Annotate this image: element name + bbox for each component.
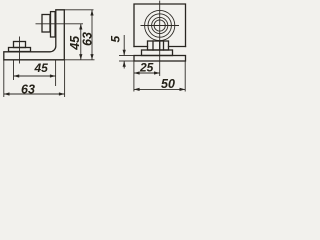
bolt 1 washer (9, 48, 31, 52)
extension line left (plate left edge extended down) (133, 61, 135, 92)
dimension line 45 vertical (80, 24, 82, 60)
bolt shank circle (152, 17, 168, 33)
plate top view (square, bottom edge interrupted by bolt head) (134, 4, 186, 47)
svg-text:45: 45 (34, 61, 49, 75)
bolt 1 centerline (19, 37, 21, 64)
bolt head (front view) (148, 41, 169, 50)
svg-text:5: 5 (108, 36, 122, 43)
dimension line 5 (vertical, arrows outside) (123, 35, 125, 56)
dimension line 63 bottom (4, 93, 65, 95)
washer circle (top view, outer) (145, 10, 175, 40)
dimension line 25 (134, 72, 160, 74)
bolt horizontal centerline (top view) (141, 25, 180, 27)
extension lines for dim 5 (plate faces extended left) (119, 55, 134, 57)
extension line top (leg top edge extended) (64, 9, 93, 11)
dimension line 45 bottom (14, 75, 56, 77)
bolt 2 centerline (also extension line of dim 45 vertical) (36, 23, 84, 25)
extension line at bolt1 head edge (13, 60, 15, 80)
bolt head facet line middle (159, 41, 161, 50)
svg-text:50: 50 (161, 77, 175, 91)
bolt vertical centerline (through both views, also ext of dim 25) (159, 1, 161, 76)
svg-text:63: 63 (81, 32, 95, 46)
svg-text:25: 25 (139, 61, 154, 75)
bolt head facet line left (152, 41, 154, 50)
bolt 1 head (bottom bolt, front view) (14, 42, 26, 48)
extension line bottom right (plate bottom extended) (64, 59, 94, 61)
washer (front view) (142, 50, 173, 56)
dimension line 63 vertical (91, 10, 93, 60)
bolt 2 washer (51, 12, 56, 37)
plate (front view) (134, 56, 186, 62)
extension line at leg outer face extended down (64, 60, 66, 97)
extension line bottom left (plate left edge extended down) (3, 60, 5, 97)
extension line right (plate right edge extended down) (184, 61, 186, 92)
thread circle (inner) (154, 20, 165, 31)
dimension line 50 (134, 88, 185, 90)
extension line at leg inner face extended down (55, 60, 57, 86)
svg-text:63: 63 (21, 82, 35, 96)
bolt head facet line right (163, 41, 165, 50)
bracket body (L-angle outline with inner fillet) (4, 10, 65, 60)
bolt 2 head (top bolt, side view) (42, 15, 50, 33)
bolt head chamfer circle (148, 14, 171, 37)
